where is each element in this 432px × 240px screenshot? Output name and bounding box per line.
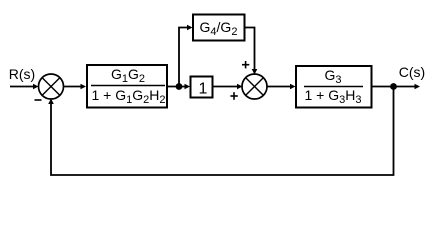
block 1 — [191, 77, 213, 98]
svg-text:R(s): R(s) — [9, 66, 35, 82]
wire S2 to block G3 — [267, 86, 291, 88]
summing junction S1 — [39, 74, 64, 99]
wire block G3 to output — [373, 86, 416, 88]
summing junction S2 — [242, 74, 267, 99]
svg-text:C(s): C(s) — [399, 64, 425, 80]
svg-text:G1G2: G1G2 — [111, 66, 145, 85]
block G1: G1G2/(1+G1G2H2) — [87, 65, 167, 108]
wire S1 to block G1 — [64, 86, 83, 88]
svg-text:G4/G2: G4/G2 — [200, 19, 238, 38]
svg-text:1 + G3H3: 1 + G3H3 — [304, 87, 361, 106]
wire input to summer 1 — [10, 86, 34, 88]
svg-text:1 + G1G2H2: 1 + G1G2H2 — [91, 87, 165, 106]
wire G4/G2 output down to summer 2 — [246, 28, 255, 70]
wire block G1 to block 1 — [168, 86, 186, 88]
node N2 takeoff dot — [390, 83, 397, 90]
wire feedback loop — [51, 87, 394, 176]
plus sign at S2 top input — [242, 64, 249, 66]
block G3: G3/(1+G3H3) — [296, 66, 372, 108]
svg-text:G3: G3 — [324, 67, 341, 86]
plus sign at S2 left input — [230, 95, 237, 97]
node N1 takeoff dot — [176, 83, 183, 90]
minus sign at S1 feedback input — [35, 99, 42, 101]
block G4/G2 — [193, 15, 245, 41]
svg-text:1: 1 — [199, 81, 208, 98]
wire block 1 to summer 2 — [214, 86, 238, 88]
wire branch up to G4/G2 — [179, 28, 188, 87]
